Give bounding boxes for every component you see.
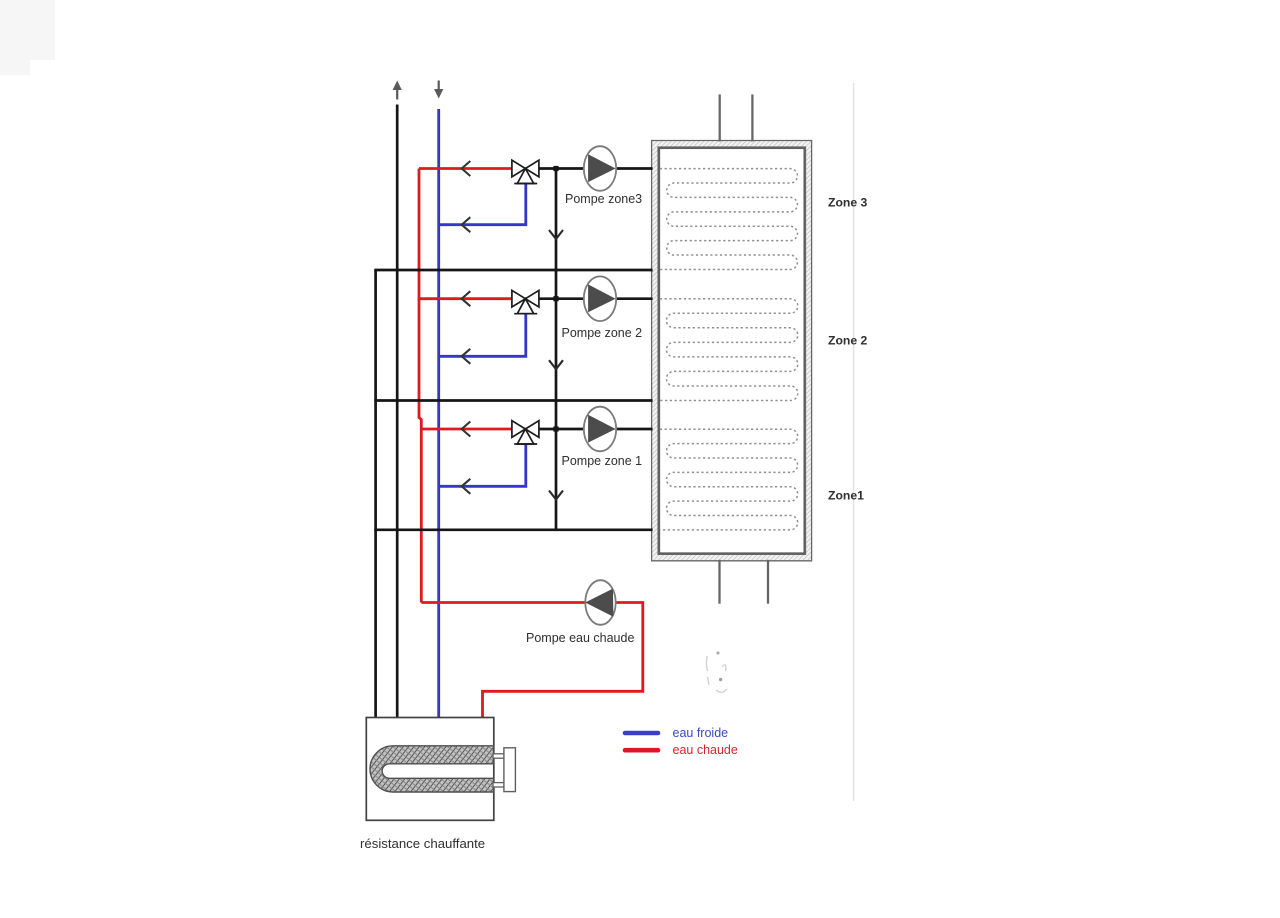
arrow blue zone 2 [462, 349, 471, 364]
svg-text:eau froide: eau froide [673, 726, 729, 740]
coil zone 3 [660, 169, 798, 270]
wire down pipe zone 2 [555, 270, 558, 402]
wire red feed zone 2 [419, 297, 513, 300]
wire return bus zone 3 [374, 269, 652, 272]
heater box [366, 718, 494, 821]
pump Pompe zone 2 [584, 276, 616, 321]
arrow red zone 2 [462, 291, 471, 306]
wire pump line zone 1 [539, 428, 653, 431]
arrow down gray [434, 81, 443, 99]
arrow down zone 2 [549, 360, 563, 369]
tank top pipe 2 [751, 94, 753, 141]
wire return bus zone 2 [374, 399, 652, 402]
tank bottom pipe 2 [767, 560, 769, 604]
element flange [504, 748, 516, 792]
wire red hot rail [419, 169, 421, 603]
tank bottom pipe 1 [718, 560, 720, 604]
svg-text:Pompe eau chaude: Pompe eau chaude [526, 631, 634, 645]
junction zone 3 [553, 166, 558, 171]
svg-text:Zone 2: Zone 2 [828, 333, 867, 347]
scan smudge top-left [0, 0, 55, 75]
coil zone 1 [660, 429, 798, 530]
junction zone 1 [553, 426, 558, 431]
wire pump line zone 2 [539, 297, 653, 300]
tank top pipe 1 [719, 94, 721, 141]
wire blue return zone 1 [439, 444, 526, 486]
svg-text:Pompe zone3: Pompe zone3 [565, 192, 642, 206]
element stub top [493, 754, 504, 758]
wire red pump to heater [483, 603, 643, 720]
arrow up gray [393, 81, 402, 100]
svg-text:Zone 3: Zone 3 [828, 195, 867, 209]
wire down pipe zone 1 [555, 401, 558, 531]
svg-text:Pompe zone 2: Pompe zone 2 [562, 326, 643, 340]
legend hot line [625, 748, 658, 753]
wire red feed zone 3 [419, 167, 513, 170]
svg-text:résistance chauffante: résistance chauffante [360, 836, 485, 851]
scan scribble [706, 656, 727, 692]
3-way valve zone 3 [512, 160, 539, 183]
svg-text:Zone1: Zone1 [828, 488, 864, 502]
legend cold line [625, 731, 658, 736]
arrow red zone 3 [462, 161, 471, 176]
wire red hot supply to pump [421, 601, 586, 604]
wire red feed zone 1 [421, 428, 512, 431]
arrow blue zone 1 [462, 479, 471, 494]
arrow blue zone 3 [462, 217, 471, 232]
wire second black vertical [396, 105, 399, 720]
arrow red zone 1 [462, 422, 471, 437]
wire blue return zone 3 [439, 184, 526, 225]
wire blue cold rail [437, 109, 440, 719]
wire blue return zone 2 [439, 314, 526, 357]
wire down pipe zone 3 [555, 169, 558, 272]
3-way valve zone 1 [512, 421, 539, 444]
tank inner wall [659, 148, 804, 553]
pump Pompe zone3 [584, 146, 616, 191]
wire pump line zone 3 [539, 167, 653, 170]
svg-text:Pompe zone 1: Pompe zone 1 [562, 454, 643, 468]
junction zone 2 [553, 296, 558, 301]
arrow down zone 3 [549, 230, 563, 239]
heating element [370, 746, 494, 792]
wire return bus zone 1 [374, 528, 652, 531]
3-way valve zone 2 [512, 290, 539, 313]
pump Pompe zone 1 [584, 407, 616, 452]
wire left black rail [374, 270, 377, 719]
pump Pompe eau chaude [585, 580, 616, 625]
tank hatched wall [652, 141, 812, 561]
svg-text:eau chaude: eau chaude [673, 743, 738, 757]
coil zone 2 [660, 299, 798, 401]
wire vertical gray separator [853, 83, 855, 801]
arrow down zone 1 [549, 491, 563, 500]
element stub bottom [493, 783, 504, 787]
